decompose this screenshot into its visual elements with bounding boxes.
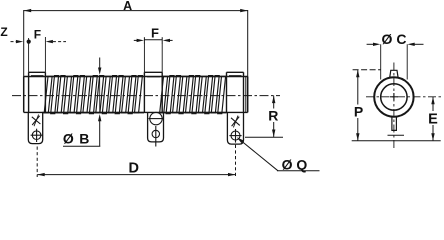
winding bottom edge band — [42, 112, 227, 114]
dimension C line — [367, 43, 424, 80]
end view inner circle — [381, 84, 407, 110]
dimension Z / F left line — [11, 37, 67, 72]
svg-text:Ø B: Ø B — [63, 131, 90, 147]
dimension D line — [37, 145, 235, 177]
svg-text:D: D — [129, 160, 139, 176]
clamp 2 small hole — [152, 126, 159, 147]
clamp 2 saddle — [144, 72, 162, 112]
winding section right — [160, 76, 226, 114]
end view center cross — [390, 93, 398, 101]
clamp 3 weld mark — [231, 116, 240, 128]
clamp 1 weld mark — [32, 115, 41, 127]
label P — [353, 105, 365, 119]
winding top edge band — [46, 75, 227, 77]
dimension P line — [353, 70, 381, 141]
end view vertical center line — [393, 63, 395, 150]
dimension A line — [24, 9, 248, 77]
clamp 2 big hole — [149, 112, 164, 124]
dimension Q leader — [237, 137, 320, 171]
svg-text:F: F — [34, 28, 41, 42]
label R — [268, 109, 279, 123]
dimension B vertical line — [63, 58, 101, 147]
end view bottom reference line — [352, 140, 441, 142]
dimension F middle line — [134, 37, 173, 72]
label E — [427, 111, 439, 125]
end view lead hook — [392, 117, 397, 131]
svg-text:F: F — [151, 25, 159, 40]
clamp 3 saddle — [227, 72, 246, 112]
svg-text:Ø C: Ø C — [382, 31, 407, 47]
clamp 1 lug — [28, 112, 42, 143]
end view horizontal center line — [366, 96, 442, 98]
end view top tab — [390, 70, 398, 77]
dimension R line — [245, 96, 283, 138]
clamp 2 lug — [148, 112, 164, 141]
winding section left — [44, 76, 142, 114]
body center line — [12, 95, 280, 97]
resistor body outline — [24, 77, 248, 113]
clamp 1 saddle — [29, 72, 46, 112]
clamp 3 lug — [227, 112, 243, 144]
svg-text:Ø Q: Ø Q — [282, 157, 308, 173]
clamp 3 hole — [229, 129, 241, 143]
svg-text:E: E — [428, 112, 438, 128]
svg-text:Z: Z — [0, 25, 7, 39]
svg-text:P: P — [354, 103, 363, 119]
svg-text:R: R — [268, 107, 278, 123]
end view outer circle — [374, 77, 413, 116]
svg-text:A: A — [123, 0, 132, 13]
dimension E line — [431, 97, 434, 141]
clamp 1 hole — [31, 129, 43, 142]
